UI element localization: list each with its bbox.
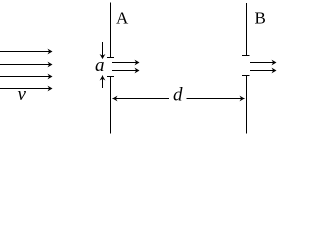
incident beam arrow 4 bbox=[0, 86, 53, 92]
svg-text:a: a bbox=[95, 55, 105, 76]
slit width marker upper (down arrow) bbox=[100, 42, 106, 59]
incident beam arrow 3 bbox=[0, 74, 53, 80]
transmitted arrow B upper bbox=[250, 60, 277, 66]
incident beam arrow 1 bbox=[0, 49, 53, 55]
transmitted arrow A upper bbox=[112, 60, 140, 66]
svg-text:A: A bbox=[116, 9, 129, 28]
incident beam arrow 2 bbox=[0, 62, 53, 68]
transmitted arrow B lower bbox=[250, 68, 277, 74]
dimension arrow d (double-headed) bbox=[113, 96, 245, 102]
barrier A top plate bbox=[107, 3, 114, 58]
svg-text:B: B bbox=[255, 9, 266, 28]
barrier B top plate bbox=[242, 3, 250, 56]
barrier A bottom plate bbox=[107, 77, 114, 134]
slit width marker lower (up arrow) bbox=[100, 76, 106, 89]
svg-text:v: v bbox=[18, 84, 27, 105]
barrier B bottom plate bbox=[242, 76, 250, 134]
transmitted arrow A lower bbox=[112, 68, 140, 74]
svg-text:d: d bbox=[173, 85, 183, 106]
